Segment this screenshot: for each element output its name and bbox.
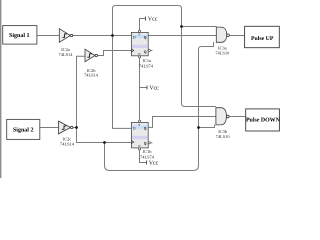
nand gate IC3a 74LS10 (215, 27, 230, 55)
inverter IC2a (59, 29, 74, 57)
svg-text:Vcc: Vcc (149, 86, 159, 92)
svg-text:74LS14: 74LS14 (84, 73, 99, 78)
output box Pulse UP (245, 26, 280, 47)
wire gate1 output to Pulse UP (229, 35, 244, 37)
wire Signal1 to IC2a input (37, 35, 59, 37)
svg-text:Signal 1: Signal 1 (9, 32, 30, 39)
svg-text:74LS14: 74LS14 (59, 52, 74, 57)
svg-text:Pulse DOWN: Pulse DOWN (246, 116, 281, 123)
wire FF2 Q to gate2 input2 (148, 117, 216, 128)
power bar Vcc middle (146, 86, 148, 90)
svg-text:S: S (138, 33, 140, 37)
wire big loop net S2 to gate third inputs (105, 42, 214, 171)
wire FF2 clear to Vcc (140, 148, 147, 163)
output box Pulse DOWN (246, 109, 281, 131)
svg-text:Pulse UP: Pulse UP (251, 35, 274, 42)
svg-text:74LS10: 74LS10 (216, 134, 231, 139)
svg-text:Signal 2: Signal 2 (13, 127, 34, 134)
node IC2c output junction (75, 126, 78, 129)
svg-text:74LS74: 74LS74 (139, 64, 154, 69)
svg-text:Q: Q (144, 142, 147, 146)
svg-text:D: D (133, 126, 136, 130)
wire FF1 Q to gate1 input2 (148, 35, 216, 37)
svg-text:74LS74: 74LS74 (140, 154, 155, 159)
svg-text:D: D (133, 36, 136, 40)
wire FF1 preset pin to Vcc (140, 19, 146, 33)
power bar Vcc bottom (146, 161, 148, 165)
wire FF1 clear to FF2 preset (139, 56, 141, 123)
svg-text:IC1b: IC1b (143, 149, 153, 154)
nand gate IC3b 74LS10 (216, 108, 231, 139)
input box Signal 1 (3, 26, 37, 44)
node junction dots (75, 25, 200, 144)
svg-text:Vcc: Vcc (148, 16, 158, 22)
wire Vcc tap middle (140, 87, 148, 89)
left screenshot border (0, 0, 1, 178)
input box Signal 2 (7, 119, 40, 139)
node gate1 in1 junction (180, 25, 183, 28)
wire branch to gate2 input3 (199, 125, 215, 128)
svg-text:Vcc: Vcc (149, 161, 159, 167)
wire IC2b input riser from net S2 (77, 56, 132, 142)
inverter IC2b (84, 49, 99, 77)
svg-text:74LS10: 74LS10 (215, 50, 230, 55)
svg-text:Q: Q (144, 36, 147, 40)
svg-text:74LS14: 74LS14 (60, 141, 75, 146)
flip-flop IC1b 74LS74 (131, 120, 154, 159)
wire top loop net S1 to NAND gates (113, 6, 216, 107)
wire Signal2 to IC2c input (40, 127, 59, 129)
svg-text:S: S (138, 123, 140, 127)
node gate2 in3 junction (197, 126, 200, 129)
wire IC2b output to FF1 CLK (98, 51, 132, 56)
wire branch FF2 D input (113, 36, 132, 129)
node S1 rail junction (111, 34, 114, 37)
wire gate2 output to Pulse DOWN (229, 116, 246, 118)
power bar Vcc top (145, 17, 147, 21)
svg-text:Q: Q (144, 50, 147, 54)
wire IC2a output to FF1 D (73, 35, 132, 37)
wire branch to gate1 input1 (182, 26, 217, 28)
wire IC2c output stub (73, 127, 77, 129)
svg-text:Q: Q (144, 126, 147, 130)
node FF2 clk junction (103, 141, 106, 144)
svg-text:IC1a: IC1a (143, 58, 152, 63)
inverter IC2c (59, 121, 75, 146)
flip-flop IC1a 74LS74 (131, 30, 153, 68)
